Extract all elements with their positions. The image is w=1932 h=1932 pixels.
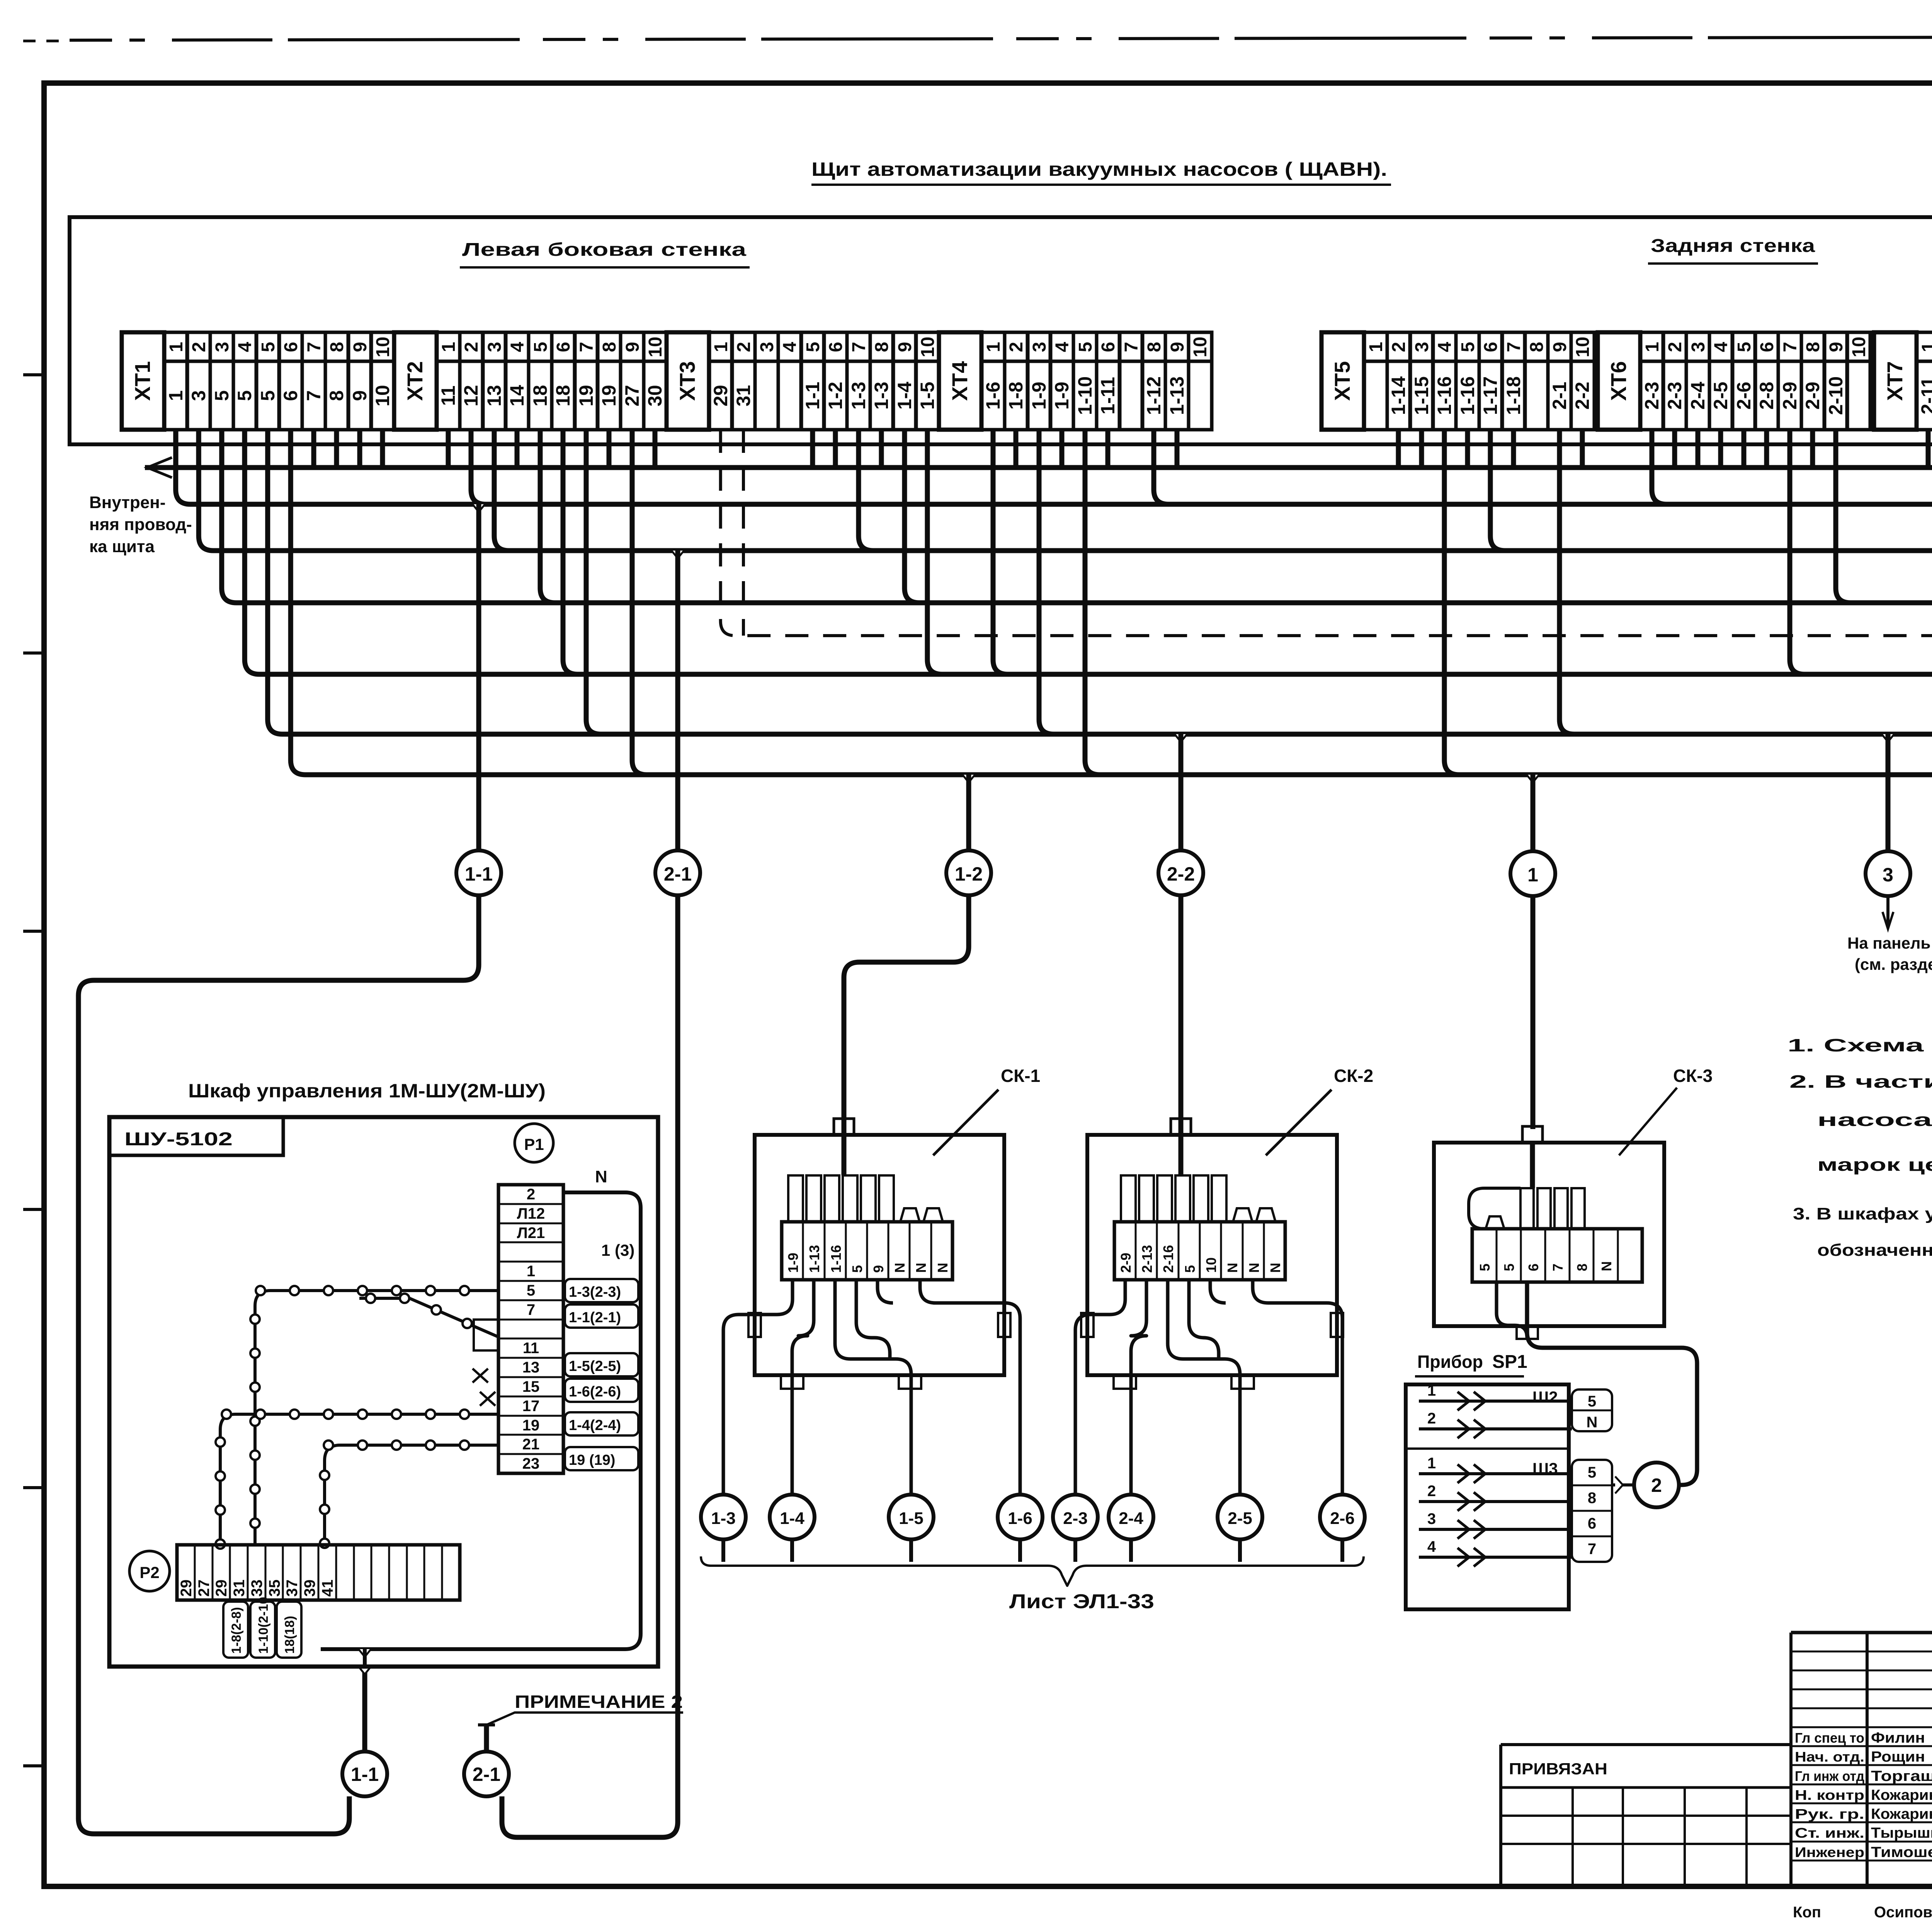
svg-text:2-6: 2-6 bbox=[1330, 1509, 1355, 1528]
svg-text:1-3: 1-3 bbox=[871, 382, 892, 410]
svg-text:1-5(2-5): 1-5(2-5) bbox=[569, 1358, 621, 1374]
binding table (привязан) bbox=[1501, 1745, 1791, 1886]
svg-text:2-1: 2-1 bbox=[664, 863, 692, 885]
svg-text:2: 2 bbox=[1665, 342, 1685, 352]
svg-text:N: N bbox=[1246, 1263, 1262, 1273]
svg-text:9: 9 bbox=[350, 342, 371, 352]
svg-text:N: N bbox=[595, 1167, 607, 1186]
svg-text:ПРИВЯЗАН: ПРИВЯЗАН bbox=[1509, 1760, 1607, 1778]
svg-text:6: 6 bbox=[1526, 1264, 1541, 1271]
svg-text:35: 35 bbox=[266, 1580, 283, 1597]
svg-text:7: 7 bbox=[303, 390, 325, 401]
svg-text:Рощин: Рощин bbox=[1871, 1749, 1925, 1765]
svg-text:9: 9 bbox=[349, 390, 371, 401]
svg-text:Рук. гр.: Рук. гр. bbox=[1795, 1806, 1864, 1822]
svg-text:1-1: 1-1 bbox=[351, 1764, 379, 1785]
instrument SP1 bbox=[1406, 1352, 1569, 1609]
bus B2 bbox=[176, 430, 1932, 504]
svg-text:9: 9 bbox=[622, 342, 643, 352]
svg-text:39: 39 bbox=[301, 1580, 318, 1597]
svg-text:2: 2 bbox=[1389, 342, 1409, 352]
svg-text:2-4: 2-4 bbox=[1119, 1509, 1143, 1528]
svg-text:2-10: 2-10 bbox=[1825, 376, 1847, 415]
svg-text:21: 21 bbox=[522, 1436, 540, 1453]
cable circle 2-6 bbox=[1320, 1495, 1365, 1539]
svg-text:5: 5 bbox=[1075, 342, 1096, 352]
svg-text:3: 3 bbox=[188, 390, 209, 401]
terminal block XT1 bbox=[122, 332, 394, 430]
sheet reference brace bbox=[701, 1556, 1364, 1586]
svg-text:7: 7 bbox=[1504, 342, 1524, 352]
svg-text:Тырышкин: Тырышкин bbox=[1871, 1825, 1932, 1841]
svg-text:19: 19 bbox=[522, 1417, 540, 1434]
terminal block XT5 bbox=[1321, 332, 1594, 430]
svg-text:СК-1: СК-1 bbox=[1001, 1066, 1040, 1086]
bus B3 bbox=[199, 430, 1932, 551]
svg-text:1. Схема внешних проводок: 1. Схема внешних проводок на листе ЭА1-3… bbox=[1787, 1035, 1932, 1055]
svg-text:SP1: SP1 bbox=[1492, 1352, 1527, 1372]
svg-text:1: 1 bbox=[527, 1263, 535, 1280]
svg-text:2-3: 2-3 bbox=[1641, 382, 1663, 410]
connector P2 circle bbox=[129, 1551, 170, 1591]
svg-text:5: 5 bbox=[1588, 1393, 1596, 1410]
svg-text:1: 1 bbox=[166, 342, 187, 352]
svg-text:3: 3 bbox=[1688, 342, 1709, 352]
svg-text:2-1: 2-1 bbox=[473, 1764, 500, 1785]
svg-text:На панель сигнализации „ЛГ“: На панель сигнализации „ЛГ“ bbox=[1847, 934, 1932, 952]
removed-wire cross marks bbox=[473, 1369, 488, 1383]
svg-text:8: 8 bbox=[327, 342, 347, 352]
beaded wire W2 bbox=[220, 1414, 498, 1545]
svg-text:3: 3 bbox=[1412, 342, 1432, 352]
note 2 leader and label bbox=[486, 1713, 683, 1725]
svg-text:Р1: Р1 bbox=[524, 1135, 544, 1153]
svg-text:19: 19 bbox=[598, 385, 620, 406]
svg-text:6: 6 bbox=[281, 342, 301, 352]
svg-text:8: 8 bbox=[1588, 1490, 1596, 1507]
svg-text:18: 18 bbox=[552, 385, 574, 406]
svg-text:2-13: 2-13 bbox=[1139, 1245, 1155, 1273]
wire plug Ш3-5 to circle 2 bbox=[1612, 1483, 1634, 1486]
svg-text:Щит автоматизации вакуумных на: Щит автоматизации вакуумных насосов ( ЩА… bbox=[811, 158, 1387, 180]
svg-text:XT1: XT1 bbox=[130, 361, 155, 401]
cable 1-1 circle at cabinet bbox=[342, 1752, 387, 1796]
svg-text:1-2: 1-2 bbox=[955, 863, 983, 885]
svg-text:XT6: XT6 bbox=[1606, 361, 1631, 401]
svg-text:1-6: 1-6 bbox=[982, 382, 1004, 410]
connector block СК-1 bbox=[723, 1066, 1040, 1495]
terminal block XT7 bbox=[1874, 332, 1932, 430]
svg-text:XT3: XT3 bbox=[675, 361, 699, 401]
svg-text:Л21: Л21 bbox=[517, 1225, 545, 1242]
svg-text:12: 12 bbox=[460, 385, 482, 406]
svg-text:3: 3 bbox=[1029, 342, 1050, 352]
svg-text:СК-3: СК-3 bbox=[1673, 1066, 1713, 1086]
svg-text:1-4: 1-4 bbox=[894, 382, 915, 410]
svg-text:2-3: 2-3 bbox=[1664, 382, 1685, 410]
cable circle 2-5 bbox=[1218, 1495, 1262, 1539]
svg-text:5: 5 bbox=[1477, 1264, 1493, 1271]
svg-text:6: 6 bbox=[280, 390, 301, 401]
svg-text:XT4: XT4 bbox=[947, 361, 972, 401]
svg-text:2. В части шкафа управлен: 2. В части шкафа управления схема выполн… bbox=[1789, 1071, 1932, 1092]
svg-text:N: N bbox=[1599, 1261, 1614, 1271]
short wire drops from terminals to inner bus bbox=[173, 430, 179, 468]
svg-text:7: 7 bbox=[1121, 342, 1142, 352]
svg-text:1-15: 1-15 bbox=[1411, 376, 1432, 415]
svg-text:1-3: 1-3 bbox=[711, 1509, 736, 1528]
svg-text:30: 30 bbox=[644, 385, 666, 406]
svg-text:1: 1 bbox=[1918, 342, 1932, 352]
svg-text:23: 23 bbox=[522, 1455, 540, 1472]
bus B7 bbox=[291, 430, 1932, 775]
svg-text:2-6: 2-6 bbox=[1733, 382, 1755, 410]
svg-text:5: 5 bbox=[1182, 1265, 1198, 1273]
svg-text:29: 29 bbox=[710, 385, 731, 406]
svg-text:2: 2 bbox=[734, 342, 754, 352]
svg-text:2: 2 bbox=[189, 342, 209, 352]
svg-text:Кожаринова: Кожаринова bbox=[1871, 1806, 1932, 1822]
svg-text:Инженер: Инженер bbox=[1795, 1844, 1864, 1860]
svg-text:1-5: 1-5 bbox=[899, 1509, 923, 1528]
connector P1 circle bbox=[515, 1124, 553, 1162]
svg-text:17: 17 bbox=[522, 1398, 540, 1415]
svg-text:5: 5 bbox=[211, 390, 233, 401]
svg-text:10: 10 bbox=[1573, 337, 1593, 357]
svg-text:Филин: Филин bbox=[1871, 1730, 1925, 1746]
svg-text:2-2: 2-2 bbox=[1167, 863, 1195, 885]
svg-text:3. В шкафах управления произве: 3. В шкафах управления произвести дополн… bbox=[1793, 1204, 1932, 1223]
svg-text:XT2: XT2 bbox=[403, 361, 427, 401]
beaded diagonal jumper bbox=[359, 1298, 498, 1337]
svg-text:1: 1 bbox=[1427, 1455, 1436, 1472]
svg-text:2-9: 2-9 bbox=[1779, 382, 1801, 410]
svg-text:Л12: Л12 bbox=[517, 1205, 545, 1222]
svg-text:СК-2: СК-2 bbox=[1334, 1066, 1373, 1086]
svg-text:7: 7 bbox=[1780, 342, 1801, 352]
cable circle 1-4 bbox=[770, 1495, 815, 1539]
svg-text:2: 2 bbox=[1006, 342, 1027, 352]
svg-text:18(18): 18(18) bbox=[282, 1616, 297, 1654]
svg-text:Внутрен-: Внутрен- bbox=[89, 493, 165, 512]
cable circle 1-3 bbox=[701, 1495, 746, 1539]
svg-text:5: 5 bbox=[1501, 1264, 1517, 1271]
svg-text:XT7: XT7 bbox=[1883, 361, 1907, 401]
svg-text:3: 3 bbox=[212, 342, 233, 352]
svg-text:1-3(2-3): 1-3(2-3) bbox=[569, 1284, 621, 1300]
svg-text:14: 14 bbox=[506, 385, 528, 406]
svg-text:1-9: 1-9 bbox=[1051, 382, 1073, 410]
svg-text:10: 10 bbox=[372, 385, 393, 406]
svg-text:1-17: 1-17 bbox=[1480, 376, 1501, 415]
svg-text:1-9: 1-9 bbox=[785, 1253, 801, 1273]
svg-text:2-4: 2-4 bbox=[1687, 382, 1709, 410]
svg-text:5: 5 bbox=[257, 390, 279, 401]
svg-text:7: 7 bbox=[1588, 1541, 1596, 1558]
svg-text:марок цепей, как показано: марок цепей, как показано в скобках bbox=[1817, 1155, 1932, 1175]
svg-text:15: 15 bbox=[522, 1378, 540, 1395]
svg-text:4: 4 bbox=[1052, 342, 1073, 352]
svg-text:Гл спец то: Гл спец то bbox=[1795, 1730, 1864, 1746]
svg-text:1-13: 1-13 bbox=[806, 1245, 822, 1273]
CK-3 internal bends bbox=[1469, 1188, 1520, 1229]
svg-text:10: 10 bbox=[373, 337, 393, 357]
svg-text:2-8: 2-8 bbox=[1756, 382, 1777, 410]
svg-text:10: 10 bbox=[1849, 337, 1869, 357]
svg-text:1: 1 bbox=[711, 342, 731, 352]
svg-text:ПРИМЕЧАНИЕ 2: ПРИМЕЧАНИЕ 2 bbox=[515, 1692, 683, 1712]
svg-text:2: 2 bbox=[1427, 1410, 1436, 1427]
cabinet box bbox=[109, 1117, 658, 1667]
terminal block XT3 bbox=[667, 332, 939, 430]
cable circle 1-6 bbox=[998, 1495, 1043, 1539]
svg-text:37: 37 bbox=[284, 1580, 301, 1597]
CK-3 exit wire to circle 2 bbox=[1497, 1282, 1527, 1338]
svg-text:Торгашов: Торгашов bbox=[1871, 1768, 1932, 1784]
cable 1-2 circle and route bbox=[963, 775, 975, 782]
svg-text:7: 7 bbox=[577, 342, 597, 352]
svg-text:33: 33 bbox=[248, 1580, 265, 1597]
svg-text:N: N bbox=[1267, 1263, 1283, 1273]
svg-text:Тимошенко: Тимошенко bbox=[1871, 1844, 1932, 1861]
cable 1 circle and route bbox=[1527, 775, 1539, 782]
svg-text:1-14: 1-14 bbox=[1388, 376, 1409, 415]
svg-text:31: 31 bbox=[733, 385, 754, 406]
svg-text:1: 1 bbox=[1427, 1382, 1436, 1399]
cable 1-1 circle and route bbox=[473, 504, 485, 512]
svg-text:Задняя стенка: Задняя стенка bbox=[1651, 236, 1815, 256]
svg-text:Нач. отд.: Нач. отд. bbox=[1795, 1749, 1864, 1765]
svg-text:19: 19 bbox=[575, 385, 597, 406]
svg-text:18: 18 bbox=[529, 385, 551, 406]
svg-text:2: 2 bbox=[461, 342, 482, 352]
svg-text:Левая боковая стенка: Левая боковая стенка bbox=[462, 240, 746, 260]
svg-text:5: 5 bbox=[258, 342, 279, 352]
svg-text:5: 5 bbox=[1588, 1464, 1596, 1481]
svg-text:3: 3 bbox=[757, 342, 777, 352]
svg-text:27: 27 bbox=[196, 1580, 213, 1597]
svg-text:1-1: 1-1 bbox=[465, 863, 493, 885]
svg-text:8: 8 bbox=[1527, 342, 1547, 352]
deep terminal drops bending onto buses bbox=[471, 430, 486, 504]
svg-text:5: 5 bbox=[234, 390, 255, 401]
svg-text:Ш2: Ш2 bbox=[1532, 1388, 1558, 1406]
svg-text:2-1: 2-1 bbox=[1549, 382, 1570, 410]
svg-text:N: N bbox=[892, 1263, 908, 1273]
N return wire inside cabinet bbox=[321, 1192, 641, 1649]
svg-text:6: 6 bbox=[1481, 342, 1501, 352]
svg-text:5: 5 bbox=[803, 342, 823, 352]
svg-text:10: 10 bbox=[918, 337, 938, 357]
scan artifact scuff line top bbox=[70, 36, 1932, 40]
svg-text:1-16: 1-16 bbox=[1434, 376, 1455, 415]
svg-text:1: 1 bbox=[1366, 342, 1386, 352]
svg-text:1: 1 bbox=[439, 342, 459, 352]
svg-text:4: 4 bbox=[1435, 342, 1455, 352]
svg-text:1-8: 1-8 bbox=[1005, 382, 1027, 410]
svg-text:1-13: 1-13 bbox=[1166, 376, 1188, 415]
svg-text:8: 8 bbox=[1803, 342, 1823, 352]
connector P1 terminal column bbox=[498, 1185, 563, 1473]
svg-text:2: 2 bbox=[1427, 1483, 1436, 1500]
svg-text:7: 7 bbox=[849, 342, 869, 352]
cable 2-2 circle and route bbox=[1175, 734, 1187, 742]
svg-text:насоса 1м. и аналогична д: насоса 1м. и аналогична для 2м с изменен… bbox=[1817, 1110, 1932, 1130]
svg-text:ШУ-5102: ШУ-5102 bbox=[124, 1129, 233, 1150]
svg-text:19 (19): 19 (19) bbox=[569, 1452, 615, 1468]
svg-text:13: 13 bbox=[483, 385, 505, 406]
connector block СК-2 bbox=[1075, 1066, 1373, 1495]
svg-text:6: 6 bbox=[553, 342, 574, 352]
svg-text:29: 29 bbox=[213, 1580, 230, 1597]
svg-text:4: 4 bbox=[507, 342, 528, 352]
terminal block XT4 bbox=[939, 332, 1212, 430]
bus B4 bbox=[222, 430, 1932, 603]
svg-text:9: 9 bbox=[871, 1265, 886, 1273]
svg-text:7: 7 bbox=[1550, 1264, 1566, 1271]
svg-text:8: 8 bbox=[326, 390, 347, 401]
cable 2-1 circle at cabinet bbox=[464, 1752, 509, 1796]
svg-text:Р2: Р2 bbox=[139, 1563, 159, 1582]
svg-text:9: 9 bbox=[895, 342, 915, 352]
svg-text:ка щита: ка щита bbox=[89, 537, 155, 556]
svg-text:1 (3): 1 (3) bbox=[601, 1241, 634, 1259]
svg-text:6: 6 bbox=[1588, 1515, 1596, 1532]
svg-text:3: 3 bbox=[1427, 1510, 1436, 1527]
svg-text:1: 1 bbox=[1527, 864, 1538, 886]
svg-text:5: 5 bbox=[527, 1282, 535, 1299]
svg-text:N: N bbox=[1587, 1414, 1598, 1431]
svg-text:1: 1 bbox=[1642, 342, 1663, 352]
connector P2 terminal row bbox=[177, 1545, 460, 1600]
svg-text:9: 9 bbox=[1826, 342, 1847, 352]
cabinet type label ШУ-5102 bbox=[109, 1117, 283, 1155]
beaded wire W3 bbox=[325, 1445, 498, 1545]
fold marks left edge bbox=[23, 373, 46, 376]
svg-text:31: 31 bbox=[231, 1580, 248, 1597]
svg-text:1-18: 1-18 bbox=[1503, 376, 1524, 415]
SP1 plug Ш3 cells bbox=[1572, 1460, 1612, 1562]
svg-text:Осипова: Осипова bbox=[1874, 1904, 1932, 1921]
svg-text:1-16: 1-16 bbox=[1457, 376, 1478, 415]
svg-text:2-9: 2-9 bbox=[1118, 1253, 1134, 1273]
svg-text:2-3: 2-3 bbox=[1063, 1509, 1088, 1528]
svg-text:1-10(2-10: 1-10(2-10 bbox=[256, 1597, 271, 1654]
svg-text:13: 13 bbox=[522, 1359, 540, 1376]
connector block СК-3 bbox=[1434, 1066, 1713, 1485]
svg-text:Ст. инж.: Ст. инж. bbox=[1795, 1825, 1864, 1841]
svg-text:2: 2 bbox=[527, 1186, 535, 1203]
svg-text:5: 5 bbox=[1734, 342, 1755, 352]
svg-text:9: 9 bbox=[1167, 342, 1188, 352]
svg-text:1-16: 1-16 bbox=[828, 1245, 844, 1273]
svg-text:1: 1 bbox=[983, 342, 1004, 352]
svg-text:7: 7 bbox=[527, 1301, 535, 1318]
svg-text:8: 8 bbox=[1574, 1264, 1590, 1271]
svg-text:1: 1 bbox=[165, 390, 187, 401]
internal wiring arrow + label bbox=[145, 430, 1932, 468]
svg-text:Коп: Коп bbox=[1793, 1904, 1821, 1921]
svg-text:5: 5 bbox=[531, 342, 551, 352]
cable 3 circle with arrow to annunciator panel bbox=[1882, 734, 1894, 742]
svg-text:XT5: XT5 bbox=[1330, 361, 1354, 401]
svg-text:1-8(2-8): 1-8(2-8) bbox=[229, 1607, 244, 1654]
svg-text:1-9: 1-9 bbox=[1028, 382, 1050, 410]
svg-text:няя провод-: няя провод- bbox=[89, 515, 192, 534]
svg-text:8: 8 bbox=[872, 342, 892, 352]
panel outline rectangle bbox=[70, 217, 1932, 444]
svg-text:10: 10 bbox=[1203, 1257, 1219, 1273]
svg-text:5: 5 bbox=[1458, 342, 1478, 352]
svg-text:9: 9 bbox=[1550, 342, 1570, 352]
svg-text:1-4: 1-4 bbox=[780, 1509, 804, 1528]
cable circle 2-4 bbox=[1109, 1495, 1153, 1539]
terminal block XT6 bbox=[1598, 332, 1870, 430]
svg-text:1-1(2-1): 1-1(2-1) bbox=[569, 1310, 621, 1326]
cable 2-1 circle and route bbox=[672, 551, 684, 558]
svg-text:Н. контр: Н. контр bbox=[1795, 1787, 1864, 1803]
svg-text:27: 27 bbox=[621, 385, 643, 406]
svg-text:6: 6 bbox=[826, 342, 846, 352]
svg-text:N: N bbox=[1225, 1263, 1240, 1273]
svg-text:1-4(2-4): 1-4(2-4) bbox=[569, 1417, 621, 1434]
svg-text:1-2: 1-2 bbox=[825, 382, 846, 410]
svg-text:4: 4 bbox=[1711, 342, 1731, 352]
svg-text:10: 10 bbox=[645, 337, 666, 357]
svg-text:2: 2 bbox=[1651, 1475, 1662, 1496]
svg-text:2-9: 2-9 bbox=[1802, 382, 1823, 410]
svg-text:8: 8 bbox=[599, 342, 620, 352]
bus B5 bbox=[245, 430, 1932, 674]
beaded wire W1 bbox=[255, 1291, 498, 1545]
small aux box on P1 bbox=[474, 1320, 498, 1350]
svg-text:10: 10 bbox=[1190, 337, 1211, 357]
title block bbox=[1791, 1633, 1932, 1886]
svg-text:Прибор: Прибор bbox=[1417, 1352, 1483, 1372]
cable circle 1-5 bbox=[889, 1495, 934, 1539]
svg-text:N: N bbox=[913, 1263, 929, 1273]
cable circle 2-3 bbox=[1053, 1495, 1098, 1539]
cable circle 2 bbox=[1634, 1463, 1679, 1507]
bus B6 bbox=[268, 430, 1932, 734]
svg-text:2-5: 2-5 bbox=[1710, 382, 1731, 410]
svg-text:1-10: 1-10 bbox=[1074, 376, 1096, 415]
svg-text:обозначенных: обозначенных bbox=[1817, 1241, 1932, 1260]
svg-text:2-11: 2-11 bbox=[1917, 377, 1932, 414]
svg-text:4: 4 bbox=[1427, 1538, 1436, 1555]
svg-text:2-5: 2-5 bbox=[1228, 1509, 1252, 1528]
svg-text:1-5: 1-5 bbox=[917, 382, 938, 410]
svg-text:6: 6 bbox=[1757, 342, 1777, 352]
svg-text:29: 29 bbox=[178, 1580, 195, 1597]
svg-text:Лист ЭЛ1-33: Лист ЭЛ1-33 bbox=[1009, 1590, 1154, 1613]
svg-text:Кожаринова: Кожаринова bbox=[1871, 1787, 1932, 1803]
svg-text:1-1: 1-1 bbox=[802, 382, 823, 410]
svg-text:3: 3 bbox=[1883, 864, 1893, 886]
svg-text:11: 11 bbox=[523, 1340, 539, 1357]
svg-text:41: 41 bbox=[319, 1580, 336, 1597]
P2 cable tags bbox=[223, 1602, 248, 1658]
svg-text:(см. раздел„ЭЛ“): (см. раздел„ЭЛ“) bbox=[1855, 955, 1932, 973]
svg-text:8: 8 bbox=[1144, 342, 1165, 352]
svg-text:N: N bbox=[935, 1263, 951, 1273]
SP1 plug Ш2 cells bbox=[1572, 1389, 1612, 1431]
svg-text:4: 4 bbox=[780, 342, 800, 352]
svg-text:5: 5 bbox=[849, 1265, 865, 1273]
terminal block XT2 bbox=[394, 332, 667, 430]
svg-text:2-16: 2-16 bbox=[1160, 1245, 1176, 1273]
svg-text:Гл инж отд: Гл инж отд bbox=[1795, 1768, 1864, 1784]
